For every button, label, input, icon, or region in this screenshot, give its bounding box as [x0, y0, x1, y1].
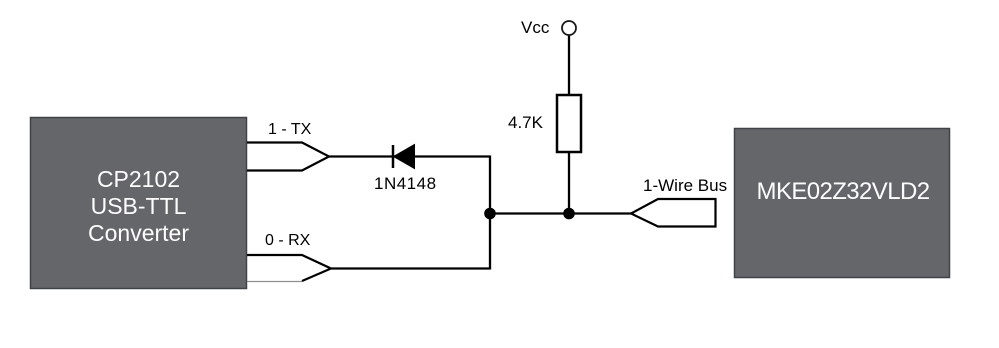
Vcc terminal circle — [562, 21, 576, 35]
wire: TX tag tip to diode branch corner — [329, 155, 490, 157]
junction node B (pull-up junction) — [563, 208, 575, 220]
wire: vertical branch from diode wire down to RX wire — [489, 156, 491, 270]
block U1: CP2102 USB-TTL Converter — [31, 118, 247, 289]
svg-text:Vcc: Vcc — [521, 18, 550, 37]
pin tag RX bottom edge (light) — [247, 281, 302, 283]
wire: resistor top to Vcc terminal — [568, 35, 570, 95]
diode D1 (cathode left) — [393, 145, 415, 169]
wire: RX tag tip to vertical branch — [331, 267, 490, 269]
svg-text:MKE02Z32VLD2: MKE02Z32VLD2 — [757, 178, 930, 205]
pin tag RX (pin 0 of U1), dark outline — [247, 255, 331, 281]
wire: node B up to resistor — [568, 152, 570, 214]
svg-text:1N4148: 1N4148 — [374, 174, 437, 193]
resistor R1 4.7K — [557, 95, 581, 152]
pin tag TX (pin 1 of U1) — [247, 143, 329, 171]
svg-text:1 - TX: 1 - TX — [268, 121, 312, 138]
svg-text:Converter: Converter — [88, 220, 189, 246]
svg-text:0 - RX: 0 - RX — [265, 232, 311, 249]
wire: node A to 1-Wire Bus tag — [490, 212, 631, 214]
svg-text:1-Wire Bus: 1-Wire Bus — [643, 176, 727, 195]
block U2: MKE02Z32VLD2 MCU — [735, 129, 950, 278]
pin tag 1-Wire Bus (to MKE02Z32VLD2) — [631, 199, 716, 227]
junction node A (bus junction) — [484, 208, 496, 220]
svg-text:CP2102: CP2102 — [97, 166, 180, 192]
svg-text:USB-TTL: USB-TTL — [91, 193, 187, 219]
svg-text:4.7K: 4.7K — [508, 113, 544, 132]
